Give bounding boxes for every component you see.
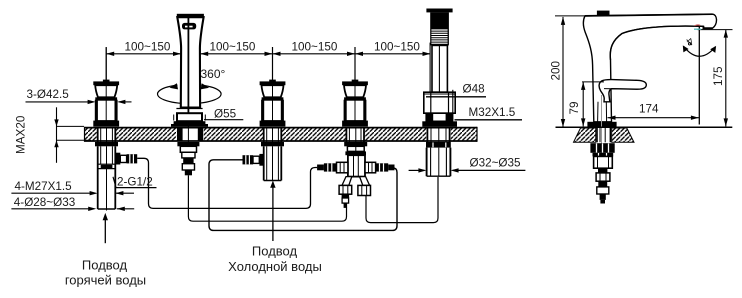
- svg-text:горячей воды: горячей воды: [65, 272, 146, 287]
- svg-text:Ø55: Ø55: [214, 107, 237, 120]
- svg-text:2-G1/2: 2-G1/2: [117, 176, 153, 189]
- svg-text:Холодной воды: Холодной воды: [228, 259, 322, 274]
- svg-text:Ø48: Ø48: [463, 82, 485, 95]
- svg-text:360°: 360°: [201, 67, 226, 81]
- svg-text:100~150: 100~150: [374, 40, 420, 53]
- svg-text:79: 79: [568, 101, 581, 114]
- svg-text:175: 175: [712, 66, 725, 86]
- svg-text:M32X1.5: M32X1.5: [469, 106, 516, 119]
- svg-text:MAX20: MAX20: [15, 115, 28, 154]
- svg-text:Ø32~Ø35: Ø32~Ø35: [470, 156, 522, 169]
- svg-text:100~150: 100~150: [125, 40, 171, 53]
- svg-text:174: 174: [639, 102, 659, 115]
- svg-text:200: 200: [550, 60, 563, 80]
- svg-text:4-Ø28~Ø33: 4-Ø28~Ø33: [14, 196, 75, 209]
- svg-text:Подвод: Подвод: [252, 244, 298, 259]
- svg-text:4-M27X1.5: 4-M27X1.5: [15, 180, 73, 193]
- svg-text:100~150: 100~150: [210, 40, 256, 53]
- svg-text:100~150: 100~150: [292, 40, 338, 53]
- svg-text:3-Ø42.5: 3-Ø42.5: [27, 88, 70, 101]
- svg-text:Подвод: Подвод: [82, 258, 128, 273]
